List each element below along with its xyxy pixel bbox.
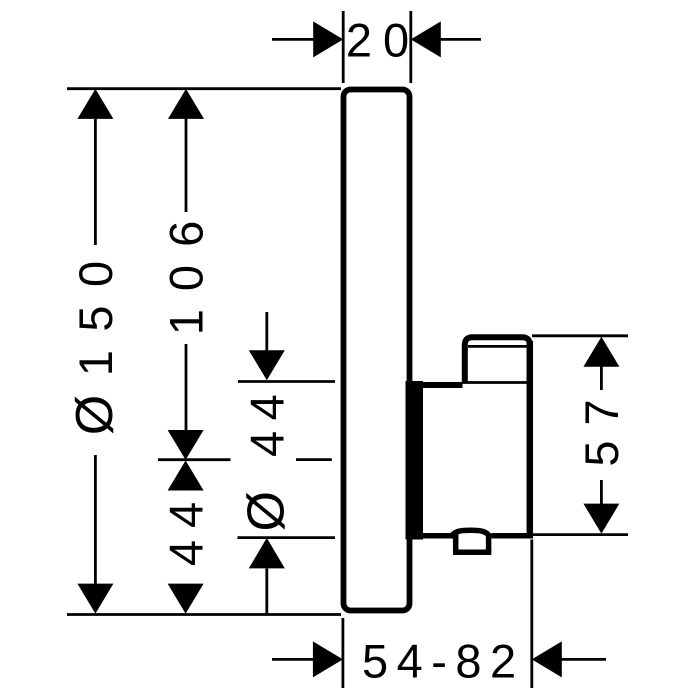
svg-text:44: 44	[159, 490, 212, 566]
svg-text:20: 20	[346, 14, 420, 67]
svg-text:Ø 44: Ø 44	[238, 384, 296, 532]
svg-text:54-82: 54-82	[362, 635, 525, 688]
svg-text:Ø150: Ø150	[66, 242, 124, 435]
svg-text:106: 106	[160, 203, 213, 335]
svg-text:57: 57	[575, 384, 628, 466]
